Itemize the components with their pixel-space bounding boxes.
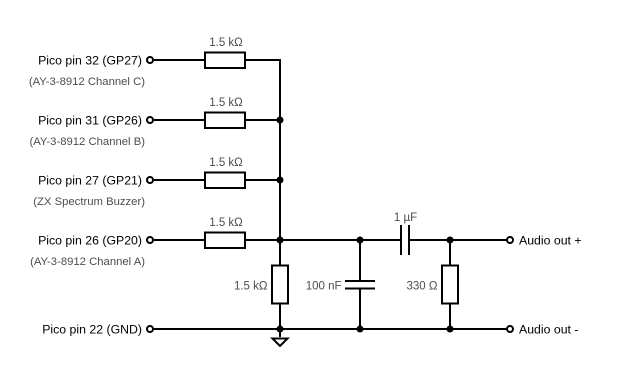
resistor R2 1.5k (205, 113, 245, 129)
ground symbol (273, 329, 288, 346)
svg-text:1 µF: 1 µF (394, 212, 417, 224)
resistor R1 1.5k (205, 53, 245, 69)
svg-text:330 Ω: 330 Ω (407, 281, 438, 293)
junction ground rail at R5 (277, 326, 284, 333)
wire resistor R6 to ground rail (449, 303, 451, 329)
svg-text:(AY-3-8912 Channel C): (AY-3-8912 Channel C) (29, 76, 145, 88)
node GP20 input terminal (147, 237, 153, 243)
junction C1 top (357, 237, 364, 244)
svg-text:(AY-3-8912 Channel A): (AY-3-8912 Channel A) (30, 256, 145, 268)
wire resistor R1 to bus (245, 60, 280, 120)
node Audio out + terminal (507, 237, 513, 243)
svg-text:Audio out +: Audio out + (519, 234, 582, 248)
svg-text:Pico pin 31 (GP26): Pico pin 31 (GP26) (38, 114, 142, 128)
junction R6 top (447, 237, 454, 244)
svg-text:Pico pin 26 (GP20): Pico pin 26 (GP20) (38, 234, 142, 248)
svg-text:1.5 kΩ: 1.5 kΩ (209, 37, 243, 49)
svg-text:Pico pin 32 (GP27): Pico pin 32 (GP27) (38, 54, 142, 68)
capacitor C1 100nF top lead (359, 240, 361, 281)
node GND input terminal (147, 326, 153, 332)
resistor R3 1.5k (205, 173, 245, 189)
node Audio out - terminal (507, 326, 513, 332)
junction bus row2 (277, 117, 284, 124)
resistor R5 1.5k to ground (272, 266, 288, 304)
wire resistor R4 to mix node (245, 239, 280, 241)
wire mix node to resistor R5 (279, 240, 281, 265)
wire bus row2 to row3 (279, 120, 281, 180)
svg-text:(ZX Spectrum Buzzer): (ZX Spectrum Buzzer) (33, 196, 145, 208)
svg-text:1.5 kΩ: 1.5 kΩ (209, 217, 243, 229)
junction mix node row4 (277, 237, 284, 244)
svg-text:(AY-3-8912 Channel B): (AY-3-8912 Channel B) (29, 136, 145, 148)
wire resistor R5 to ground rail (279, 303, 281, 329)
capacitor C2 1uF plates (401, 225, 409, 255)
svg-text:1.5 kΩ: 1.5 kΩ (234, 281, 268, 293)
wire output node to resistor R6 (449, 240, 451, 265)
node GP26 input terminal (147, 117, 153, 123)
wire terminal GP27 to resistor R1 (154, 59, 205, 61)
svg-text:1.5 kΩ: 1.5 kΩ (209, 97, 243, 109)
svg-text:Audio out -: Audio out - (519, 323, 578, 337)
resistor R4 1.5k (205, 233, 245, 249)
node GP21 input terminal (147, 177, 153, 183)
wire resistor R2 to bus (245, 119, 280, 121)
svg-text:1.5 kΩ: 1.5 kΩ (209, 157, 243, 169)
capacitor C1 100nF plates (345, 281, 375, 289)
junction ground rail at R6 (447, 326, 454, 333)
wire resistor R3 to bus (245, 179, 280, 181)
wire capacitor C2 to output node (409, 239, 510, 241)
resistor R6 330 ohm (442, 266, 458, 304)
wire terminal GP21 to resistor R3 (154, 179, 205, 181)
svg-text:Pico pin 22 (GND): Pico pin 22 (GND) (42, 323, 142, 337)
wire terminal GP20 to resistor R4 (154, 239, 205, 241)
capacitor C1 100nF bottom lead (359, 289, 361, 330)
junction bus row3 (277, 177, 284, 184)
svg-text:Pico pin 27 (GP21): Pico pin 27 (GP21) (38, 174, 142, 188)
svg-text:100 nF: 100 nF (306, 281, 342, 293)
wire terminal GP26 to resistor R2 (154, 119, 205, 121)
wire mix node to capacitor C2 plate (280, 239, 401, 241)
wire ground rail (154, 328, 506, 330)
node GP27 input terminal (147, 57, 153, 63)
wire bus row3 to row4 (279, 180, 281, 240)
junction ground rail at C1 (357, 326, 364, 333)
